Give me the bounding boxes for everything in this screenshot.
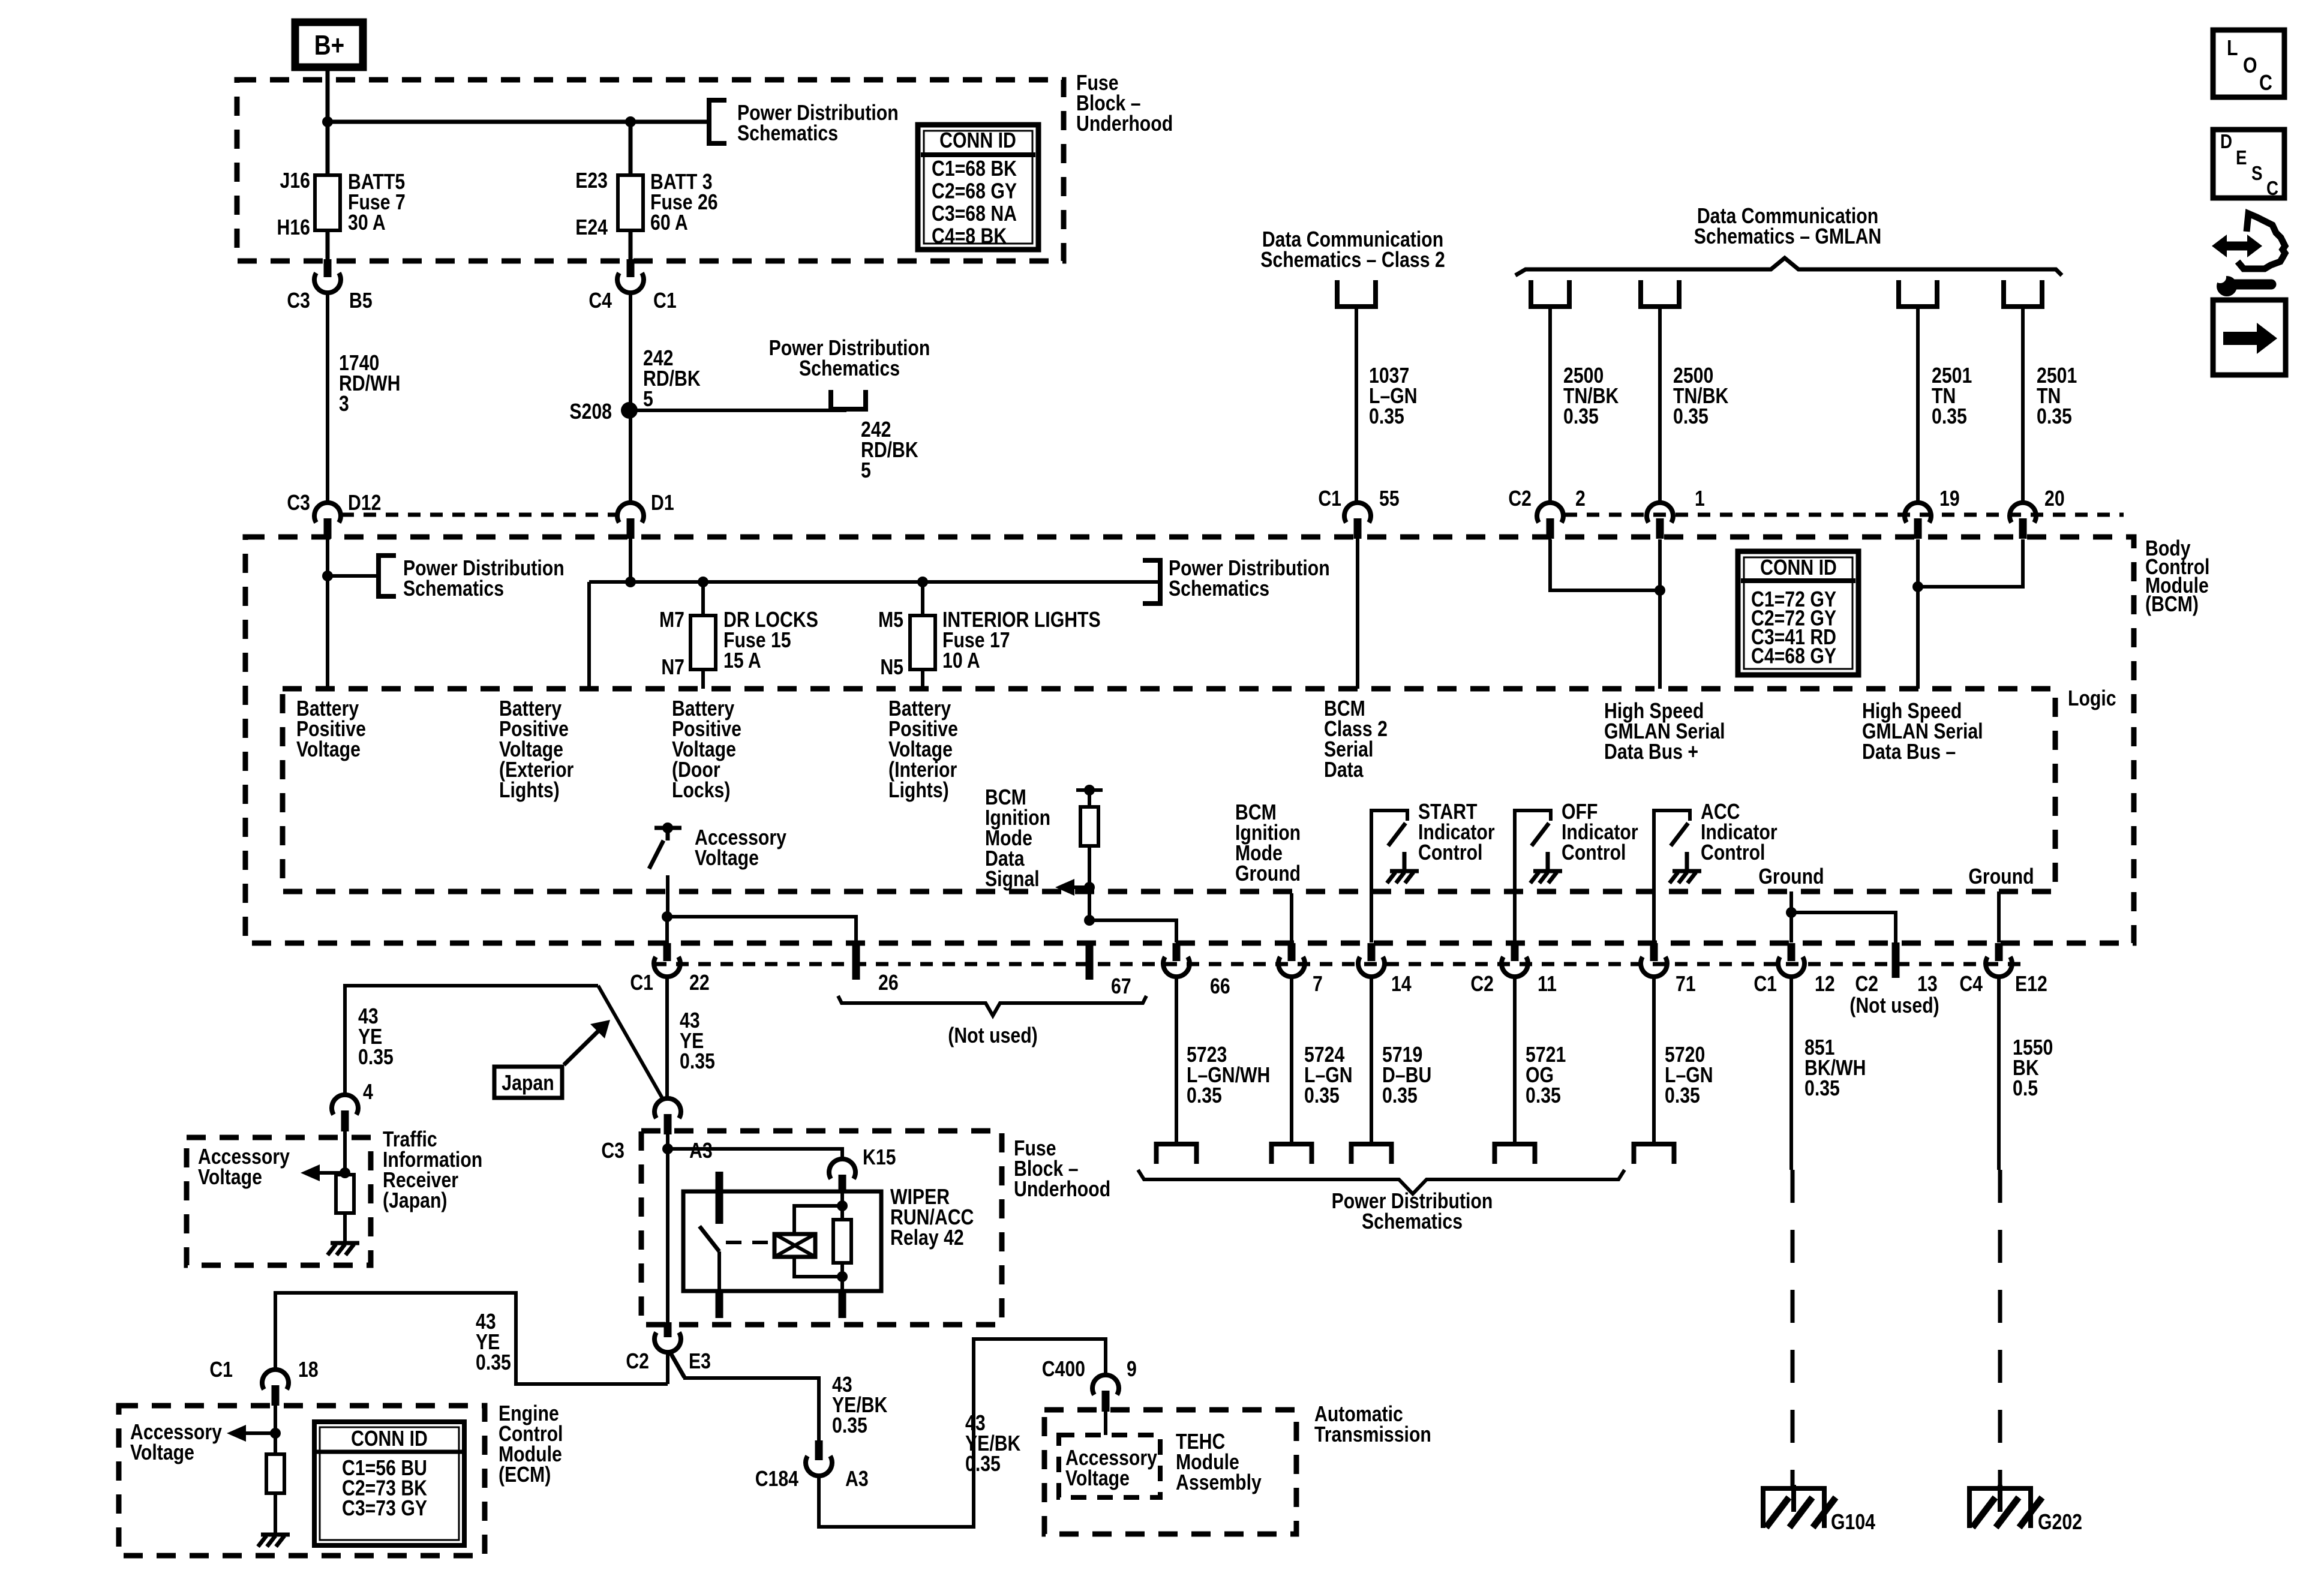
- svg-text:Data Bus –: Data Bus –: [1862, 740, 1956, 764]
- connector pin 66: [1173, 943, 1181, 961]
- svg-text:C: C: [2266, 178, 2278, 200]
- svg-text:13: 13: [1917, 972, 1938, 996]
- svg-text:C2: C2: [1470, 972, 1494, 996]
- svg-text:14: 14: [1391, 972, 1412, 996]
- svg-text:H16: H16: [277, 216, 310, 240]
- module box automatic transmission: [1044, 1410, 1296, 1534]
- svg-text:15 A: 15 A: [723, 649, 761, 673]
- wire 2500 TN/BK 0.35 no2: [1658, 307, 1662, 503]
- connector pin 71: [1650, 943, 1658, 961]
- svg-text:10 A: 10 A: [942, 649, 980, 673]
- node junction GMLAN minus: [1912, 581, 1923, 592]
- svg-text:Data: Data: [1324, 758, 1364, 782]
- wire branch to K15: [668, 1149, 842, 1159]
- svg-text:C1: C1: [653, 289, 677, 313]
- svg-text:C3: C3: [287, 491, 310, 515]
- svg-text:C2=68 GY: C2=68 GY: [932, 179, 1017, 203]
- pin 67 not used: [1086, 942, 1094, 980]
- relay mech link dashed: [726, 1241, 774, 1244]
- node junction DR LOCKS: [698, 577, 708, 587]
- relay box wiper run/acc relay 42: [683, 1191, 881, 1291]
- svg-text:18: 18: [298, 1358, 319, 1382]
- svg-text:19: 19: [1939, 487, 1960, 511]
- node junction GMLAN plus: [1655, 585, 1665, 596]
- svg-text:CONN ID: CONN ID: [351, 1427, 428, 1451]
- connector C184 pin A3: [815, 1440, 823, 1460]
- svg-text:C2: C2: [1855, 972, 1878, 996]
- off-page bracket pin 11: [1495, 1144, 1535, 1164]
- wire resistor to ground: [343, 1213, 347, 1243]
- svg-text:E: E: [2236, 147, 2247, 169]
- connector C3 pin A3: [654, 1098, 681, 1118]
- node junction ECM: [270, 1428, 281, 1439]
- wire exterior lights feed: [587, 582, 591, 689]
- svg-text:Voltage: Voltage: [1065, 1467, 1130, 1491]
- pin 26 not used: [852, 942, 860, 980]
- node junction BATT3 tap: [625, 116, 636, 127]
- wire ground E12: [1997, 891, 2001, 942]
- relay switch pin bottom: [716, 1291, 723, 1318]
- off-page bracket pin 66: [1157, 1144, 1197, 1164]
- svg-text:Schematics: Schematics: [403, 577, 504, 601]
- svg-text:C1: C1: [1318, 487, 1341, 511]
- svg-text:Relay 42: Relay 42: [890, 1226, 964, 1250]
- relay switch lower contact: [717, 1251, 721, 1291]
- wire dashed to G202: [1998, 1170, 2002, 1488]
- svg-text:O: O: [2243, 54, 2257, 78]
- svg-text:Ground: Ground: [1968, 865, 2034, 889]
- module box body control module BCM: [245, 537, 2134, 943]
- connector pin 14: [1368, 943, 1376, 961]
- svg-text:0.35: 0.35: [1932, 405, 1967, 429]
- svg-text:60 A: 60 A: [650, 211, 688, 235]
- icon double arrow: [2220, 242, 2254, 251]
- svg-text:Schematics – GMLAN: Schematics – GMLAN: [1694, 225, 1881, 249]
- connector C2 pin 2: [1537, 503, 1563, 523]
- svg-text:A3: A3: [845, 1467, 869, 1491]
- connector C4 pin C1: [627, 259, 635, 277]
- power node B+: [295, 22, 363, 67]
- connector C1 pin 55: [1344, 503, 1371, 523]
- wire pin 22: [665, 917, 669, 943]
- table CONN ID ECM: [314, 1422, 464, 1545]
- icon DESC box: [2213, 130, 2284, 198]
- svg-text:11: 11: [1538, 972, 1557, 996]
- svg-text:B5: B5: [349, 289, 373, 313]
- wire branch to pin 66: [1089, 920, 1176, 942]
- svg-text:12: 12: [1815, 972, 1835, 996]
- relay pin bottom right: [839, 1291, 846, 1318]
- svg-text:Assembly: Assembly: [1176, 1471, 1262, 1495]
- resistor ECM: [266, 1454, 284, 1493]
- svg-text:Voltage: Voltage: [198, 1166, 262, 1190]
- svg-text:L: L: [2227, 37, 2238, 61]
- svg-text:C2: C2: [626, 1350, 649, 1374]
- pin 13 not used: [1892, 942, 1900, 978]
- svg-text:0.35: 0.35: [2037, 405, 2072, 429]
- svg-text:Lights): Lights): [499, 779, 560, 803]
- fuse BATT3 Fuse 26 60A: [629, 122, 633, 176]
- svg-text:CONN ID: CONN ID: [1760, 556, 1837, 580]
- arrow data signal: [1084, 882, 1095, 893]
- svg-text:C1: C1: [1753, 972, 1777, 996]
- svg-text:5: 5: [643, 388, 653, 412]
- wire BCM class 2 serial data: [1356, 537, 1359, 689]
- svg-text:C184: C184: [755, 1467, 799, 1491]
- wire 43 YE 0.35 to A3: [665, 977, 669, 1100]
- resistor receiver: [336, 1175, 354, 1213]
- svg-text:9: 9: [1127, 1358, 1137, 1382]
- arrow Japan callout: [564, 1029, 600, 1065]
- table CONN ID fuse block: [918, 125, 1038, 250]
- switch OFF indicator control: [1515, 810, 1551, 942]
- switch accessory voltage: [654, 826, 681, 830]
- fuse block underhood dashed box: [237, 80, 1064, 261]
- svg-text:0.35: 0.35: [1526, 1084, 1561, 1108]
- svg-text:S: S: [2251, 163, 2262, 185]
- svg-text:0.5: 0.5: [2013, 1077, 2038, 1101]
- node junction pin66/67: [1084, 915, 1095, 926]
- svg-text:(ECM): (ECM): [499, 1463, 551, 1487]
- wire 1550 BK 0.5: [1997, 977, 2001, 1170]
- node junction ground: [1786, 907, 1797, 918]
- ground START indicator: [1403, 852, 1407, 870]
- wire B+ to fuse block: [326, 67, 330, 124]
- ground ECM: [261, 1533, 290, 1537]
- wire resistor bottom: [840, 1263, 844, 1291]
- fuse block underhood dashed box 2: [641, 1131, 1002, 1325]
- brace data communication schematics GMLAN: [1515, 258, 2062, 275]
- ground receiver: [331, 1241, 359, 1245]
- svg-text:Schematics: Schematics: [737, 122, 838, 146]
- connector row dashes top right: [1565, 513, 2124, 517]
- svg-text:2: 2: [1575, 487, 1586, 511]
- svg-text:M5: M5: [878, 608, 903, 632]
- relay resistor: [833, 1220, 851, 1263]
- svg-text:3: 3: [339, 392, 349, 416]
- wire 242 RD/BK 5 upper: [629, 293, 632, 406]
- svg-text:0.35: 0.35: [1804, 1077, 1840, 1101]
- off-page bracket data communication class 2: [1337, 280, 1376, 307]
- wire high speed GMLAN bus minus: [1916, 539, 1920, 689]
- svg-text:0.35: 0.35: [832, 1414, 867, 1438]
- svg-text:0.35: 0.35: [1563, 405, 1599, 429]
- switch START indicator control: [1371, 810, 1407, 942]
- svg-text:Japan: Japan: [502, 1071, 554, 1095]
- off-page bracket pin 71: [1634, 1144, 1674, 1164]
- svg-text:0.35: 0.35: [1382, 1084, 1418, 1108]
- svg-text:0.35: 0.35: [1187, 1084, 1222, 1108]
- node junction D12: [322, 571, 333, 581]
- svg-text:0.35: 0.35: [1304, 1084, 1340, 1108]
- connector pin 1: [1647, 503, 1673, 523]
- svg-text:Voltage: Voltage: [130, 1441, 194, 1465]
- svg-text:Schematics – Class 2: Schematics – Class 2: [1260, 248, 1445, 272]
- wire accessory voltage to pin 22: [666, 875, 669, 917]
- svg-text:1: 1: [1695, 487, 1705, 511]
- svg-text:Schematics: Schematics: [1362, 1210, 1463, 1234]
- svg-text:E23: E23: [575, 169, 608, 193]
- table CONN ID BCM: [1738, 551, 1858, 675]
- wire high speed GMLAN bus plus: [1658, 539, 1662, 689]
- svg-text:C3: C3: [601, 1139, 624, 1163]
- wire 5724 L-GN 0.35: [1290, 977, 1293, 1142]
- svg-text:0.35: 0.35: [1369, 405, 1404, 429]
- relay switch lever: [699, 1226, 719, 1251]
- wire 2501 TN 0.35 no1: [1916, 307, 1920, 503]
- wire to bracket: [328, 574, 376, 578]
- svg-text:7: 7: [1313, 972, 1323, 996]
- wire into TEHC: [1104, 1412, 1107, 1435]
- svg-text:C4: C4: [1959, 972, 1983, 996]
- wire branch pin 13: [1791, 912, 1896, 942]
- off-page bracket GMLAN wire 1: [1531, 280, 1569, 307]
- svg-text:0.35: 0.35: [476, 1351, 511, 1375]
- svg-text:0.35: 0.35: [358, 1046, 394, 1070]
- off-page bracket GMLAN wire 4: [2004, 280, 2042, 307]
- wire pin20 to junction: [1918, 539, 2023, 587]
- svg-text:(Not used): (Not used): [948, 1024, 1037, 1048]
- off-page bracket GMLAN wire 3: [1899, 280, 1937, 307]
- svg-text:Control: Control: [1701, 841, 1765, 865]
- relay switch pin top: [716, 1172, 723, 1224]
- svg-text:C3=68 NA: C3=68 NA: [932, 202, 1017, 226]
- wire pin2 to junction: [1550, 539, 1660, 590]
- module box traffic information receiver Japan: [187, 1137, 371, 1265]
- wire E3 down: [666, 1352, 669, 1384]
- svg-text:B+: B+: [314, 30, 344, 61]
- node junction coil top: [837, 1200, 848, 1211]
- node junction receiver: [340, 1167, 350, 1178]
- off-page bracket pin 14: [1352, 1144, 1392, 1164]
- connector C1 pin 18: [262, 1370, 289, 1389]
- svg-text:E24: E24: [575, 216, 608, 240]
- connector C4 pin D1: [617, 503, 644, 523]
- off-page bracket power distribution schematics: [379, 556, 396, 596]
- wire 5723 L-GN/WH 0.35: [1175, 977, 1178, 1142]
- connector pin 20: [2010, 503, 2036, 523]
- connector C2 pin E3: [664, 1322, 672, 1337]
- svg-text:(Japan): (Japan): [383, 1189, 448, 1213]
- svg-text:20: 20: [2044, 487, 2065, 511]
- wire ground pin 12: [1789, 891, 1793, 942]
- wire resistor to ground ECM: [274, 1493, 277, 1535]
- label not used pins 26-67: [838, 996, 1146, 1016]
- resistor BCM ignition data: [1080, 807, 1098, 846]
- ground ACC indicator: [1685, 852, 1689, 870]
- wire BCM ignition mode ground: [1290, 893, 1293, 942]
- brace power distribution schematics: [1138, 1170, 1625, 1194]
- connector row dashes top left: [341, 513, 616, 517]
- svg-text:S208: S208: [569, 400, 612, 424]
- connector C4 pin E12: [1995, 943, 2003, 961]
- svg-text:4: 4: [363, 1080, 373, 1104]
- wire 851 BK/WH 0.35: [1789, 977, 1793, 1170]
- module box engine control module ECM: [119, 1406, 485, 1556]
- svg-text:Data Bus +: Data Bus +: [1604, 740, 1698, 764]
- svg-text:Ground: Ground: [1235, 862, 1301, 886]
- connector C3 pin B5: [324, 259, 332, 277]
- node junction B+/BATT5: [322, 116, 333, 127]
- svg-text:Voltage: Voltage: [296, 738, 361, 762]
- wire 1037 L-GN 0.35: [1355, 307, 1358, 503]
- connector pin 7: [1288, 943, 1296, 961]
- wire to resistor: [1088, 790, 1091, 807]
- connector C2 pin 11: [1511, 943, 1519, 961]
- svg-text:C: C: [2259, 71, 2272, 95]
- svg-text:66: 66: [1210, 975, 1230, 999]
- wire 5719 D-BU 0.35: [1370, 977, 1373, 1142]
- ground OFF indicator: [1546, 852, 1550, 870]
- svg-text:0.35: 0.35: [1665, 1084, 1700, 1108]
- connector C1 pin 22: [663, 943, 671, 961]
- svg-text:0.35: 0.35: [1673, 405, 1709, 429]
- off-page bracket power distribution schematics right: [1143, 560, 1160, 604]
- connector C400 pin 9: [1092, 1375, 1119, 1395]
- svg-text:D1: D1: [651, 491, 674, 515]
- wire dashed to G104: [1791, 1170, 1795, 1488]
- fuse DR LOCKS Fuse 15 15A: [701, 582, 705, 617]
- svg-text:G202: G202: [2038, 1511, 2082, 1535]
- connector K15: [829, 1159, 855, 1179]
- wire 43 YE/BK to C184: [683, 1378, 819, 1440]
- svg-text:0.35: 0.35: [680, 1050, 715, 1074]
- fuse INTERIOR LIGHTS Fuse 17 10A: [921, 582, 924, 617]
- switch ACC indicator control: [1654, 810, 1690, 942]
- wire battery positive voltage: [326, 537, 329, 689]
- icon animal head outline: [2238, 214, 2285, 269]
- svg-text:Voltage: Voltage: [695, 846, 759, 870]
- svg-text:Control: Control: [1418, 841, 1482, 865]
- wire C184 to C400: [819, 1339, 1106, 1527]
- connector row dashes bottom: [654, 962, 2029, 966]
- node junction K15 branch: [662, 1143, 673, 1154]
- svg-text:Ground: Ground: [1758, 865, 1824, 889]
- wire 2500 TN/BK 0.35 no1: [1548, 307, 1552, 503]
- bus battery feed inside fuse block lower: [589, 580, 1158, 584]
- svg-text:G104: G104: [1831, 1511, 1875, 1535]
- svg-text:E3: E3: [689, 1350, 711, 1374]
- svg-text:22: 22: [689, 971, 710, 995]
- svg-text:C400: C400: [1042, 1358, 1085, 1382]
- svg-text:Transmission: Transmission: [1314, 1423, 1431, 1447]
- wire diagonal to A3: [598, 986, 663, 1099]
- node BCM ignition mode data signal: [1076, 788, 1103, 792]
- svg-text:26: 26: [878, 971, 899, 995]
- splice S208: [621, 402, 638, 419]
- svg-text:C1=68 BK: C1=68 BK: [932, 157, 1017, 181]
- svg-text:C1: C1: [630, 971, 653, 995]
- svg-text:Locks): Locks): [672, 779, 730, 803]
- svg-text:Underhood: Underhood: [1014, 1178, 1110, 1202]
- wire branch to pin 26: [667, 917, 856, 943]
- svg-text:71: 71: [1676, 972, 1696, 996]
- svg-text:Logic: Logic: [2068, 687, 2116, 711]
- svg-text:Lights): Lights): [888, 779, 949, 803]
- svg-text:E12: E12: [2015, 972, 2047, 996]
- svg-text:C1: C1: [209, 1358, 233, 1382]
- connector C1 pin 12: [1788, 943, 1795, 961]
- wire accessory branch traffic receiver: [345, 986, 598, 1021]
- node junction INTERIOR LIGHTS: [917, 577, 928, 587]
- icon LOC box: [2213, 30, 2284, 97]
- connector C3 pin D12: [314, 503, 341, 523]
- wire 1740 RD/WH 3: [326, 293, 329, 503]
- icon arrow box: [2213, 300, 2286, 375]
- logic box: [283, 689, 2055, 891]
- svg-text:C2: C2: [1508, 487, 1532, 511]
- arrow accessory voltage receiver: [301, 1164, 320, 1181]
- wire 2501 TN 0.35 no2: [2021, 307, 2025, 503]
- wire A3 through fuse block: [666, 1134, 669, 1322]
- node junction accessory: [662, 911, 672, 922]
- svg-text:CONN ID: CONN ID: [939, 129, 1016, 153]
- svg-text:Schematics: Schematics: [799, 357, 900, 381]
- svg-text:C4=8 BK: C4=8 BK: [932, 224, 1007, 248]
- svg-text:5: 5: [861, 459, 871, 483]
- svg-text:Underhood: Underhood: [1076, 112, 1173, 136]
- svg-text:(Not used): (Not used): [1849, 994, 1939, 1018]
- svg-text:C4=68 GY: C4=68 GY: [1751, 644, 1836, 668]
- wire E3 diagonal: [670, 1352, 684, 1377]
- node junction bus left: [625, 577, 636, 587]
- svg-text:J16: J16: [280, 169, 310, 193]
- box TEHC accessory voltage: [1059, 1435, 1160, 1497]
- fuse BATT5 Fuse 7 30A: [326, 122, 330, 176]
- icon wrench: [2217, 276, 2237, 296]
- svg-text:C3: C3: [287, 289, 310, 313]
- svg-text:Schematics: Schematics: [1169, 577, 1269, 601]
- svg-text:30 A: 30 A: [348, 211, 386, 235]
- svg-text:D12: D12: [348, 491, 381, 515]
- svg-text:A3: A3: [689, 1139, 713, 1163]
- callout box Japan: [494, 1067, 562, 1098]
- ground G104: [1761, 1486, 1827, 1491]
- svg-text:K15: K15: [863, 1146, 896, 1170]
- relay coil box: [774, 1234, 815, 1257]
- svg-text:0.35: 0.35: [965, 1452, 1001, 1476]
- wire bus B+ feed: [328, 120, 708, 124]
- svg-text:C3=73 GY: C3=73 GY: [342, 1497, 427, 1521]
- wire K15 to resistor: [840, 1193, 844, 1220]
- ground G202: [1967, 1486, 2033, 1491]
- wire D1 to bus: [629, 537, 632, 582]
- wire S208 branch to power distribution: [629, 409, 846, 412]
- wire into ECM: [274, 1406, 277, 1454]
- wire 5721 OG 0.35: [1513, 977, 1517, 1142]
- svg-text:(BCM): (BCM): [2145, 593, 2199, 617]
- arrow accessory voltage ECM: [227, 1425, 246, 1442]
- svg-text:N7: N7: [661, 656, 684, 680]
- off-page bracket to power distribution schematics: [709, 100, 726, 143]
- svg-text:C4: C4: [588, 289, 612, 313]
- wire 43 YE 0.35 run to ECM: [275, 1293, 668, 1384]
- off-page bracket GMLAN wire 2: [1641, 280, 1679, 307]
- svg-text:67: 67: [1111, 975, 1131, 999]
- wire resistor down: [1088, 846, 1091, 920]
- relay coil wires: [794, 1206, 842, 1234]
- svg-text:M7: M7: [659, 608, 684, 632]
- svg-text:55: 55: [1379, 487, 1400, 511]
- svg-text:D: D: [2220, 131, 2232, 153]
- svg-text:Signal: Signal: [985, 867, 1040, 891]
- wire 242 RD/BK 5 lower: [629, 415, 632, 503]
- svg-text:Control: Control: [1562, 841, 1626, 865]
- off-page bracket pin 7: [1272, 1144, 1312, 1164]
- off-page bracket power distribution schematics: [831, 390, 866, 409]
- wire 5720 L-GN 0.35: [1652, 977, 1656, 1142]
- node junction coil bottom: [837, 1271, 848, 1282]
